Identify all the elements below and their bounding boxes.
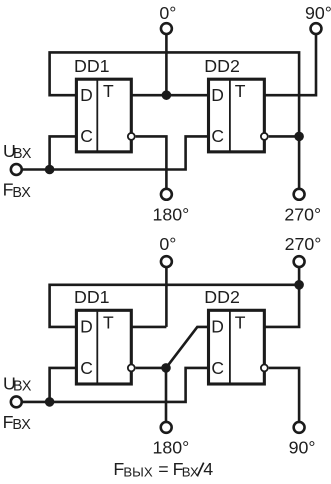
pin label D <box>80 317 93 337</box>
svg-text:0°: 0° <box>159 234 176 254</box>
svg-text:T: T <box>235 81 246 101</box>
svg-text:T: T <box>103 313 114 333</box>
flip-flop DD1 (top circuit) <box>74 56 135 152</box>
function label T <box>103 313 114 333</box>
svg-text:D: D <box>211 317 224 337</box>
wire DD1 Q output to DD2 D input <box>131 94 208 97</box>
junction feedback / 270deg node <box>294 132 304 142</box>
svg-text:4: 4 <box>203 459 213 479</box>
svg-text:ВХ: ВХ <box>182 465 199 480</box>
svg-text:90°: 90° <box>289 438 316 458</box>
terminal 270deg (bottom circuit) <box>294 256 305 267</box>
label DD1 <box>74 287 110 307</box>
svg-text:C: C <box>80 126 93 146</box>
section divider DD1 <box>96 79 98 152</box>
svg-text:D: D <box>80 317 93 337</box>
terminal 180deg (top circuit) <box>161 189 172 200</box>
terminal 180deg (bottom circuit) <box>161 422 172 433</box>
wire 0deg stem down to Q1 output <box>165 34 168 95</box>
svg-text:DD1: DD1 <box>74 56 110 76</box>
junction feedback node (bottom circuit) <box>294 280 304 290</box>
inverted output bubble DD1 (bottom) <box>128 364 135 371</box>
inverted output bubble DD2 (bottom) <box>261 364 268 371</box>
label DD2 <box>204 287 240 307</box>
section divider DD2 <box>229 79 231 152</box>
wire DD2 inverted output to 90deg terminal (bottom circuit) <box>269 368 299 422</box>
node 180deg label (bottom circuit) <box>153 438 190 458</box>
label DD1 <box>74 56 110 76</box>
pin label C <box>80 126 93 146</box>
terminal 90deg (bottom circuit) <box>294 422 305 433</box>
section divider DD2 <box>229 310 231 384</box>
body outline DD2 <box>209 79 265 152</box>
svg-text:270°: 270° <box>284 204 321 224</box>
svg-text:T: T <box>103 81 114 101</box>
label DD2 <box>204 56 240 76</box>
pin label C <box>80 358 93 378</box>
junction Q1bar node (bottom circuit) <box>161 363 171 373</box>
body outline DD2 <box>209 310 265 384</box>
flip-flop DD2 (top circuit) <box>204 56 267 152</box>
wire DD1 inverted output to 180deg terminal <box>136 136 167 189</box>
flip-flop DD1 (bottom circuit) <box>74 287 135 384</box>
terminal input (top circuit) <box>11 164 22 175</box>
wire 90deg stem down then left to DD2 Q output <box>264 34 316 95</box>
junction Q1 / 0deg node <box>162 90 172 100</box>
body outline DD1 <box>76 79 131 152</box>
node 0deg label (top) <box>159 3 176 23</box>
wire feedback from DD2 inverted output to DD1 D input (top line) <box>50 52 300 189</box>
inverted output bubble DD2 (top) <box>261 133 268 140</box>
inverted output bubble DD1 (top) <box>128 133 135 140</box>
pin label D <box>211 85 224 105</box>
pin label D <box>80 85 93 105</box>
pin label C <box>211 358 224 378</box>
node 90deg label (top) <box>305 3 331 23</box>
wire feedback from DD2 Q to DD1 D input (bottom circuit) <box>50 285 300 327</box>
wire clock line to DD2 C input (bottom circuit) <box>22 368 209 402</box>
svg-text:90°: 90° <box>305 3 331 23</box>
svg-text:C: C <box>80 358 93 378</box>
node 0deg label (bottom circuit) <box>159 234 176 254</box>
function label T <box>103 81 114 101</box>
flip-flop DD2 (bottom circuit) <box>204 287 267 384</box>
svg-text:DD1: DD1 <box>74 287 110 307</box>
svg-text:ВХ: ВХ <box>13 146 32 162</box>
wire DD2 inverted output to feedback column <box>269 135 299 138</box>
svg-text:0°: 0° <box>159 3 176 23</box>
caption Fvyx = Fvx/4 <box>113 459 213 479</box>
wire DD1 inverted output to junction (bottom circuit) <box>136 367 166 370</box>
node 90deg label (bottom circuit) <box>289 438 316 458</box>
svg-text:D: D <box>211 85 224 105</box>
node 180deg label (top circuit) <box>153 204 190 224</box>
terminal 0deg (bottom circuit) <box>161 256 172 267</box>
pin label D <box>211 317 224 337</box>
terminal 0deg (top circuit) <box>161 23 172 34</box>
wire clock to DD1 C input <box>50 136 77 169</box>
pin label C <box>211 126 224 146</box>
wire DD1 Q output (bottom circuit) <box>131 326 166 329</box>
svg-text:=: = <box>158 459 168 479</box>
function label T <box>235 81 246 101</box>
terminal input (bottom circuit) <box>11 396 22 407</box>
svg-text:DD2: DD2 <box>204 56 240 76</box>
wire clock line to DD2 C input (top circuit) <box>22 136 209 169</box>
svg-text:180°: 180° <box>153 204 190 224</box>
input labels Uvx Fvx (top circuit) <box>3 141 32 201</box>
junction clock node (bottom circuit) <box>45 397 55 407</box>
wire diagonal from junction to DD2 D input <box>166 327 209 368</box>
node 270deg label (bottom circuit) <box>285 234 322 254</box>
wire junction down to 180deg terminal (bottom circuit) <box>165 368 168 422</box>
svg-text:D: D <box>80 85 93 105</box>
wire clock to DD1 C input (bottom circuit) <box>50 368 77 402</box>
svg-text:C: C <box>211 358 224 378</box>
input labels Uvx Fvx (bottom circuit) <box>3 373 32 433</box>
svg-text:ВЫХ: ВЫХ <box>123 465 152 480</box>
wire 0deg stem down to DD1 Q output wire <box>165 267 168 327</box>
svg-text:180°: 180° <box>153 438 190 458</box>
svg-text:ВХ: ВХ <box>12 185 31 201</box>
svg-text:ВХ: ВХ <box>13 379 32 395</box>
terminal 90deg (top circuit) <box>311 23 322 34</box>
svg-text:C: C <box>211 126 224 146</box>
svg-text:270°: 270° <box>285 234 322 254</box>
svg-text:DD2: DD2 <box>204 287 240 307</box>
function label T <box>235 313 246 333</box>
body outline DD1 <box>76 310 131 384</box>
svg-text:ВХ: ВХ <box>12 417 31 433</box>
junction clock node (top circuit) <box>45 165 55 175</box>
wire 270deg stem down to DD2 Q output <box>264 267 299 327</box>
svg-text:T: T <box>235 313 246 333</box>
node 270deg label (top circuit) <box>284 204 321 224</box>
terminal 270deg (top circuit) <box>294 189 305 200</box>
section divider DD1 <box>96 310 98 384</box>
